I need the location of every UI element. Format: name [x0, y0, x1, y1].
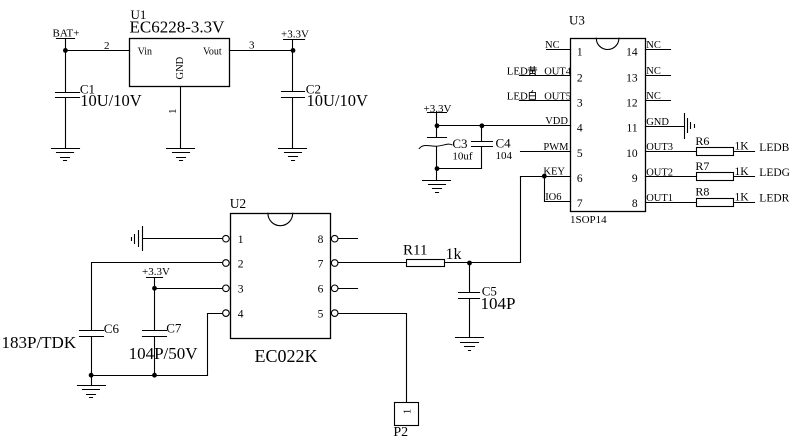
- svg-text:R11: R11: [403, 243, 427, 259]
- pin name Vout (U1): [203, 47, 222, 58]
- power flag +3.3V (U3 VDD): [424, 103, 452, 126]
- regulator U1 body: [130, 39, 230, 87]
- wire stub pin 12 (U3 NC): [646, 100, 671, 102]
- svg-text:GND: GND: [646, 117, 669, 128]
- net label LED yellow (pin 2): [507, 66, 528, 78]
- net label NC (pin 1): [545, 40, 560, 51]
- svg-text:8: 8: [318, 234, 324, 246]
- svg-text:3: 3: [238, 284, 244, 296]
- pin number 3 (U2): [238, 284, 244, 296]
- wire U2 pin 5 to P2: [339, 314, 407, 403]
- svg-text:C6: C6: [104, 321, 120, 336]
- label U2: [230, 196, 247, 211]
- power flag +3.3V (U2 pin 3): [142, 266, 170, 288]
- pin number 4 (U3): [577, 123, 583, 135]
- wire BAT+ node down to C1: [65, 51, 67, 93]
- pin name Vin (U1): [138, 47, 152, 58]
- svg-text:14: 14: [626, 46, 638, 58]
- pin number 1 (P2, rotated): [402, 409, 414, 415]
- wire GND pin 11: [646, 126, 685, 128]
- capacitor C7: [143, 289, 167, 376]
- pin number 6 (U3): [577, 173, 583, 185]
- capacitor C6: [80, 331, 104, 376]
- pin number 10 (U3): [626, 148, 638, 160]
- pin name IO6 (U3 pin 7): [545, 192, 561, 203]
- pin number 3 (U1 Vout): [249, 39, 255, 51]
- wire R8 to LEDR: [735, 202, 755, 204]
- wire VDD pin 4 to +3.3V rail: [437, 125, 571, 127]
- svg-text:VDD: VDD: [545, 116, 568, 127]
- pin number 12 (U3): [626, 97, 638, 109]
- resistor R8: [697, 199, 734, 207]
- svg-text:R7: R7: [695, 159, 709, 173]
- wire R7 to LEDG: [735, 176, 755, 178]
- value 10uf (C3): [452, 151, 473, 163]
- pin number 14 (U3): [626, 46, 638, 58]
- node VDD/C4 junction: [480, 123, 485, 128]
- pin name GND (U3 pin 11): [646, 117, 669, 128]
- node Vout/C2 junction: [291, 48, 296, 53]
- net label OUT4 (pin 2): [544, 67, 572, 78]
- svg-text:12: 12: [626, 97, 638, 109]
- svg-text:3: 3: [249, 39, 255, 51]
- pin number 4 (U2): [238, 308, 244, 320]
- pin number 5 (U3): [577, 148, 583, 160]
- wire stub pin 7 (U3 IO6): [545, 201, 571, 203]
- svg-text:NC: NC: [545, 40, 560, 51]
- pin name KEY (U3 pin 6): [543, 167, 565, 178]
- svg-text:10U/10V: 10U/10V: [307, 91, 369, 110]
- svg-text:LEDG: LEDG: [759, 167, 790, 179]
- pin circle 5 (U2): [331, 310, 338, 317]
- connector P2: [395, 403, 419, 426]
- pin number 8 (U2): [318, 234, 324, 246]
- svg-text:1K: 1K: [735, 166, 750, 178]
- svg-text:NC: NC: [646, 40, 661, 51]
- wire C4 bottom to C3 bottom: [437, 168, 482, 170]
- net label LEDR: [759, 192, 789, 204]
- pin number 2 (U3): [577, 73, 583, 85]
- node C7/ground rail junction: [152, 373, 157, 378]
- pin number 7 (U2): [318, 258, 324, 270]
- pin circle 6 (U2): [331, 285, 338, 292]
- ground (U3 pin 11, sideways): [685, 114, 695, 139]
- pin circle 8 (U2): [331, 235, 338, 242]
- label U1: [131, 7, 147, 22]
- wire stub pin 14 (U3 NC): [646, 49, 671, 51]
- node C3/C4 ground junction: [435, 166, 440, 171]
- capacitor C2: [282, 92, 305, 149]
- wire U2 pin 7 to R11: [339, 262, 407, 264]
- wire pin 9 OUT2 to R7: [646, 176, 697, 178]
- svg-text:+3.3V: +3.3V: [281, 28, 309, 40]
- IC U3 notch: [596, 38, 619, 49]
- net label OUT3 (pin 10): [646, 142, 673, 153]
- capacitor C5: [459, 263, 480, 338]
- pin number 13 (U3): [626, 73, 638, 85]
- net label NC (pin 12): [646, 91, 661, 102]
- svg-text:2: 2: [238, 258, 244, 270]
- label C3: [452, 136, 467, 151]
- pin number 2 (U2): [238, 258, 244, 270]
- svg-text:LED: LED: [507, 66, 528, 78]
- label P2: [393, 425, 408, 440]
- svg-text:OUT3: OUT3: [646, 142, 673, 153]
- svg-text:1K: 1K: [735, 191, 750, 203]
- svg-text:U3: U3: [569, 13, 585, 28]
- pin circle 3 (U2): [223, 285, 230, 292]
- svg-text:LED: LED: [507, 90, 528, 102]
- ground (C3/C4): [423, 181, 451, 193]
- pin number 5 (U2): [318, 308, 324, 320]
- svg-text:13: 13: [626, 73, 638, 85]
- svg-text:C4: C4: [496, 136, 512, 151]
- label C6: [104, 321, 120, 336]
- wire pin 8 OUT1 to R8: [646, 202, 697, 204]
- resistor R7: [697, 173, 734, 181]
- svg-text:4: 4: [577, 123, 583, 135]
- power flag +3.3V (U1 output): [281, 28, 309, 50]
- svg-text:OUT5: OUT5: [544, 91, 571, 102]
- value 104P/50V (C7): [129, 344, 199, 363]
- pin name PWM (U3 pin 5): [543, 142, 569, 153]
- wire U2 pin 4 drop to rail: [208, 314, 223, 376]
- pin number 7 (U3): [577, 198, 583, 210]
- node R11/C5/KEY junction: [467, 261, 472, 266]
- svg-text:C3: C3: [452, 136, 467, 151]
- resistor R6: [697, 148, 734, 156]
- wire ground rail (C6 to pin4 drop): [92, 375, 208, 377]
- svg-text:+3.3V: +3.3V: [424, 103, 452, 115]
- pin name VDD (U3 pin 4): [545, 116, 568, 127]
- net label LEDG: [759, 167, 790, 179]
- svg-text:EC022K: EC022K: [255, 346, 318, 366]
- pin number 9 (U3): [632, 173, 638, 185]
- svg-text:Vin: Vin: [138, 47, 152, 58]
- svg-text:BAT+: BAT+: [53, 28, 80, 40]
- node KEY/IO6 tie junction: [542, 174, 547, 179]
- pin name GND (U1, rotated): [175, 56, 186, 79]
- svg-text:10: 10: [626, 148, 638, 160]
- svg-text:183P/TDK: 183P/TDK: [2, 333, 77, 352]
- wire U2 pin 2 to C6: [92, 263, 223, 331]
- capacitor C3 (electrolytic): [419, 126, 452, 169]
- IC U2 body: [231, 214, 331, 339]
- wire pin 10 OUT3 to R6: [646, 151, 697, 153]
- svg-text:1: 1: [167, 109, 179, 115]
- net label NC (pin 13): [646, 66, 661, 77]
- svg-text:U2: U2: [230, 196, 247, 211]
- svg-text:11: 11: [627, 123, 638, 135]
- node +3.3V/C3/VDD junction: [435, 123, 440, 128]
- svg-text:1k: 1k: [446, 246, 462, 263]
- label R6: [695, 134, 709, 148]
- svg-text:7: 7: [318, 258, 324, 270]
- svg-text:EC6228-3.3V: EC6228-3.3V: [130, 17, 226, 36]
- value 1K (R8): [735, 191, 750, 203]
- svg-text:OUT1: OUT1: [646, 193, 673, 204]
- svg-text:LEDR: LEDR: [759, 192, 789, 204]
- label R8: [695, 185, 709, 199]
- value 1K (R6): [735, 141, 750, 153]
- label R7: [695, 159, 709, 173]
- pin circle 2 (U2): [223, 260, 230, 267]
- svg-text:3: 3: [577, 97, 583, 109]
- ground (bottom rail): [78, 386, 106, 398]
- svg-text:4: 4: [238, 308, 244, 320]
- svg-text:5: 5: [577, 148, 583, 160]
- svg-text:8: 8: [632, 198, 638, 210]
- svg-text:OUT2: OUT2: [646, 167, 673, 178]
- pin number 1 (U2): [238, 234, 244, 246]
- wire junction to ground (bottom left): [91, 376, 93, 386]
- wire stub pin 5 (U3 PWM): [521, 151, 571, 153]
- svg-text:104P/50V: 104P/50V: [129, 344, 199, 363]
- pin circle 1 (U2): [223, 235, 230, 242]
- wire BAT+ node to U1 Vin: [66, 50, 130, 52]
- value EC6228-3.3V (U1): [130, 17, 226, 36]
- svg-text:1: 1: [577, 46, 583, 58]
- svg-text:10U/10V: 10U/10V: [80, 91, 142, 110]
- ground (U1 GND pin): [167, 149, 195, 161]
- value EC022K (U2): [255, 346, 318, 366]
- pin number 2 (U1 Vin): [104, 40, 110, 52]
- svg-text:1: 1: [238, 234, 244, 246]
- value 183P/TDK (C6): [2, 333, 77, 352]
- pin number 11 (U3): [627, 123, 638, 135]
- svg-text:R8: R8: [695, 185, 709, 199]
- svg-text:OUT4: OUT4: [544, 67, 572, 78]
- capacitor C1: [56, 93, 80, 149]
- wire U1 Vout to +3.3V node: [230, 50, 293, 52]
- pin number 8 (U3): [632, 198, 638, 210]
- svg-text:+3.3V: +3.3V: [142, 266, 170, 278]
- pin number 1 (U3): [577, 46, 583, 58]
- resistor R11: [407, 260, 445, 267]
- node C6/ground rail junction: [89, 373, 94, 378]
- pin circle 4 (U2): [223, 310, 230, 317]
- pin circle 7 (U2): [331, 260, 338, 267]
- wire stub pin 13 (U3 NC): [646, 75, 671, 77]
- wire stub pin 1 (U3 NC): [547, 49, 571, 51]
- svg-text:C7: C7: [166, 321, 182, 336]
- value 1SOP14 (U3): [570, 214, 607, 226]
- node +3.3V/C7/pin3 junction: [152, 286, 157, 291]
- pin number 3 (U3): [577, 97, 583, 109]
- svg-text:NC: NC: [646, 66, 661, 77]
- svg-text:2: 2: [104, 40, 110, 52]
- svg-text:IO6: IO6: [545, 192, 561, 203]
- label C5: [482, 284, 497, 299]
- net label OUT5 (pin 3): [544, 91, 571, 102]
- wire junction to ground: [436, 169, 438, 181]
- svg-text:10uf: 10uf: [452, 151, 473, 163]
- label C4: [496, 136, 512, 151]
- svg-text:KEY: KEY: [543, 167, 565, 178]
- value 1K (R7): [735, 166, 750, 178]
- hanzi huang (yellow) glyph: [528, 66, 536, 75]
- value 1k (R11): [446, 246, 462, 263]
- ground (C5): [456, 338, 484, 351]
- value 104 (C4): [496, 150, 513, 162]
- wire U1 GND pin 1: [180, 87, 182, 149]
- ground (C1): [52, 149, 80, 161]
- value 10U/10V (C1): [80, 91, 142, 110]
- wire U2 pin 3 to +3.3V: [155, 288, 223, 290]
- svg-text:104: 104: [496, 150, 513, 162]
- IC U3 body: [571, 39, 646, 212]
- svg-text:2: 2: [577, 73, 583, 85]
- value 104P (C5): [481, 294, 516, 313]
- ground (C2): [279, 149, 307, 161]
- wire R6 to LEDB: [735, 151, 755, 153]
- value 10U/10V (C2): [307, 91, 369, 110]
- net label LEDB: [759, 142, 789, 154]
- svg-text:PWM: PWM: [543, 142, 569, 153]
- wire U2 pin 1 to ground: [143, 238, 223, 240]
- svg-text:6: 6: [318, 284, 324, 296]
- net label OUT2 (pin 9): [646, 167, 673, 178]
- svg-text:5: 5: [318, 308, 324, 320]
- wire KEY riser (R11 node up to KEY): [445, 177, 521, 263]
- IC U2 notch: [268, 213, 293, 225]
- svg-text:P2: P2: [393, 425, 408, 440]
- label C1: [80, 82, 95, 97]
- node BAT+/C1/U1 junction: [63, 48, 68, 53]
- pin number 1 (U1 GND, rotated): [167, 109, 179, 115]
- svg-text:1SOP14: 1SOP14: [570, 214, 607, 226]
- svg-text:Vout: Vout: [203, 47, 222, 58]
- wire stub pin 3 (U3 OUT5): [520, 100, 571, 102]
- svg-text:6: 6: [577, 173, 583, 185]
- svg-text:9: 9: [632, 173, 638, 185]
- wire stub U2 pin 8: [339, 238, 358, 240]
- net label NC (pin 14): [646, 40, 661, 51]
- svg-text:1K: 1K: [735, 141, 750, 153]
- label U3: [569, 13, 585, 28]
- power flag BAT+: [53, 28, 80, 51]
- svg-text:7: 7: [577, 198, 583, 210]
- wire KEY pin 6: [521, 176, 571, 178]
- label C2: [306, 82, 321, 97]
- hanzi bai (white) glyph: [529, 91, 535, 100]
- ground (U2 pin 1, sideways): [132, 227, 143, 251]
- wire stub pin 2 (U3 OUT4): [520, 75, 571, 77]
- svg-text:R6: R6: [695, 134, 709, 148]
- wire KEY to IO6 tie: [544, 177, 546, 202]
- net label LED white (pin 3): [507, 90, 528, 102]
- label R11: [403, 243, 427, 259]
- label C7: [166, 321, 182, 336]
- svg-text:104P: 104P: [481, 294, 516, 313]
- svg-text:NC: NC: [646, 91, 661, 102]
- net label OUT1 (pin 8): [646, 193, 673, 204]
- wire stub U2 pin 6: [339, 288, 358, 290]
- svg-text:LEDB: LEDB: [759, 142, 789, 154]
- svg-text:GND: GND: [175, 56, 186, 79]
- svg-text:1: 1: [402, 409, 414, 415]
- capacitor C4: [472, 126, 493, 169]
- wire node down to C2: [292, 51, 294, 92]
- pin number 6 (U2): [318, 284, 324, 296]
